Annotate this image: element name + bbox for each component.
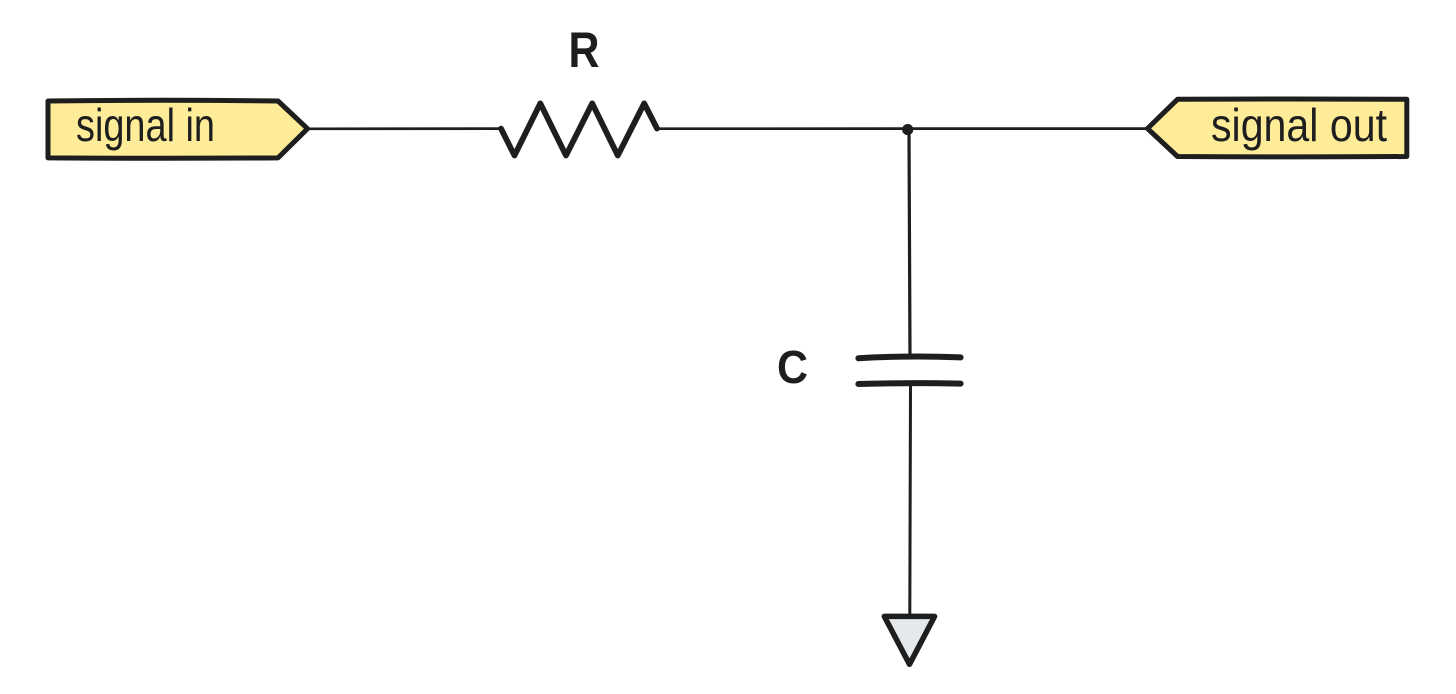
ground symbol (gray triangle) [884, 616, 934, 664]
node: signal in label (yellow arrow box) [48, 100, 308, 158]
node: signal out label (yellow arrow box) [1148, 99, 1407, 157]
wire: junction down to capacitor [909, 131, 910, 358]
capacitor C top plate [858, 356, 960, 358]
junction node (dot) [902, 124, 913, 135]
svg-text:signal in: signal in [76, 99, 215, 151]
capacitor C bottom plate [858, 380, 960, 387]
svg-text:signal out: signal out [1211, 99, 1387, 151]
wire: signal in to resistor [306, 127, 501, 130]
wire: capacitor to ground [908, 386, 912, 616]
svg-text:R: R [569, 22, 600, 78]
svg-text:C: C [777, 341, 808, 393]
wire: resistor to signal out (through junction) [657, 127, 1147, 130]
resistor R (zigzag) [501, 103, 657, 155]
